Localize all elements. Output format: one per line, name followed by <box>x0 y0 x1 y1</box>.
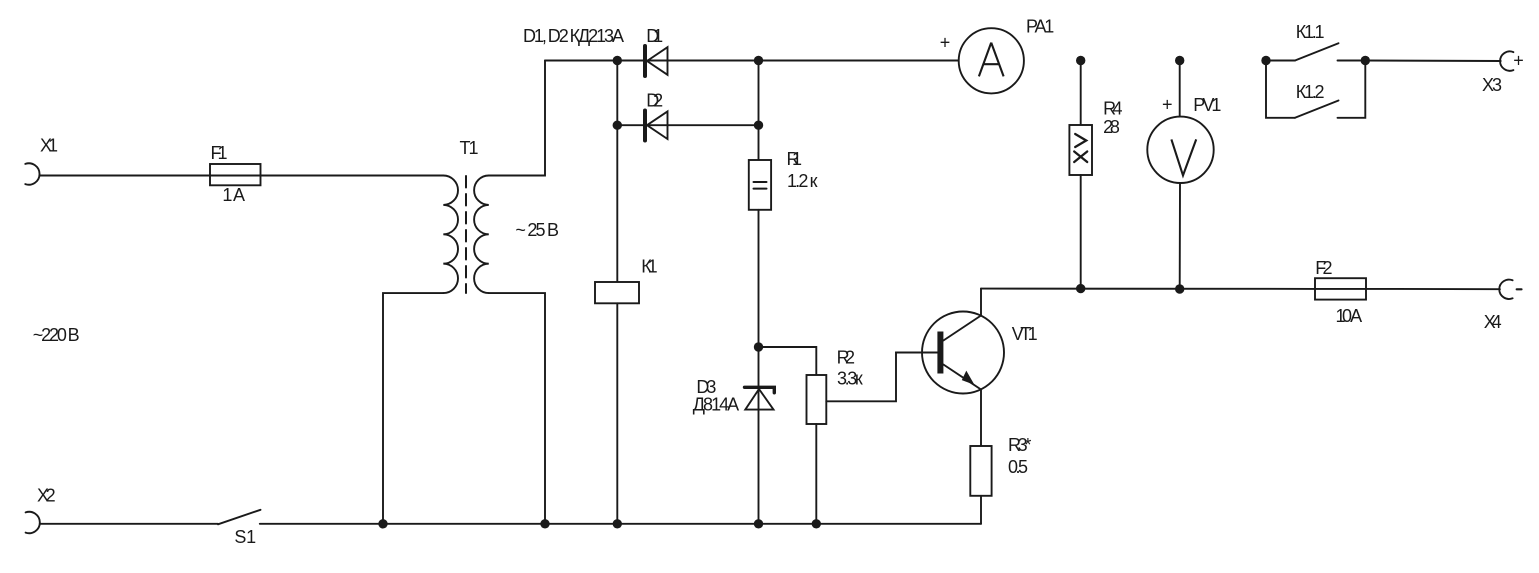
wire VT1 collector to mid rail <box>980 289 982 316</box>
svg-text:+: + <box>1513 51 1524 71</box>
wire R4 to mid rail <box>1080 175 1082 289</box>
wire F1 to T1 primary <box>261 175 444 177</box>
node D2 left <box>613 121 622 130</box>
bottom rail <box>260 523 981 525</box>
resistor R2 <box>807 375 827 424</box>
top rail left segment <box>545 60 959 62</box>
svg-text:Д814А: Д814А <box>693 395 739 415</box>
svg-text:1.2 к: 1.2 к <box>787 171 818 191</box>
svg-text:К1.1: К1.1 <box>1296 22 1325 42</box>
svg-text:X4: X4 <box>1484 312 1502 332</box>
node bottom rail / K1 coil <box>613 519 622 528</box>
mid rail <box>981 288 1315 290</box>
transformer T1 secondary winding <box>474 176 489 294</box>
terminal X4 <box>1499 280 1512 299</box>
svg-text:T1: T1 <box>460 138 479 158</box>
wire R2 to bottom rail <box>815 424 817 524</box>
wire K1 branch vertical <box>616 61 618 283</box>
wire PV1 to mid rail <box>1179 183 1181 289</box>
resistor R3 <box>970 446 991 496</box>
svg-text:28: 28 <box>1103 117 1120 137</box>
wire K1 coil to bottom rail <box>616 303 618 524</box>
wire T1 primary bottom to bottom rail <box>383 293 443 524</box>
resistor R1 <box>749 160 771 210</box>
zener diode D3 <box>745 347 775 524</box>
letter V in PV1 <box>1171 139 1196 175</box>
svg-text:S1: S1 <box>234 527 256 547</box>
wire VT1 emitter to R3 <box>980 390 982 447</box>
svg-text:PA1: PA1 <box>1026 16 1054 36</box>
switch S1 <box>218 510 261 525</box>
node top rail / K1 branch <box>613 56 622 65</box>
wire R3 to bottom rail <box>980 496 982 524</box>
svg-text:VT1: VT1 <box>1012 324 1038 344</box>
wire R2 tap to VT1 base <box>826 353 937 402</box>
relay coil K1 <box>595 282 639 303</box>
node top rail / PV1 <box>1175 56 1184 65</box>
svg-text:~220 В: ~220 В <box>33 325 80 345</box>
fuse F1 <box>210 164 261 185</box>
svg-text:~ 25 В: ~ 25 В <box>515 220 559 240</box>
svg-text:R4: R4 <box>1103 99 1122 119</box>
wire D2 row <box>617 124 758 126</box>
svg-text:R3*: R3* <box>1008 435 1031 455</box>
node R1 bottom / D3 / R2 <box>754 342 763 351</box>
svg-text:X3: X3 <box>1482 75 1502 95</box>
wire F2 to X4 <box>1366 288 1500 290</box>
svg-text:+: + <box>1162 94 1173 114</box>
node mid rail / R4 <box>1076 284 1085 293</box>
svg-text:10 А: 10 А <box>1336 306 1363 326</box>
wire R1 to node <box>758 210 760 347</box>
node top rail / K1 contacts right <box>1361 56 1370 65</box>
wire PV1 branch top <box>1179 61 1181 118</box>
terminal X1 <box>25 163 39 184</box>
svg-text:0.5: 0.5 <box>1008 457 1028 477</box>
node top rail / R4 <box>1076 56 1085 65</box>
transformer T1 core <box>465 176 467 293</box>
diode D2 <box>645 111 668 141</box>
wire T1 secondary top to top rail <box>489 61 545 176</box>
terminal X2 <box>26 512 40 533</box>
svg-text:3.3к: 3.3к <box>837 369 863 389</box>
svg-text:F1: F1 <box>211 143 228 163</box>
svg-text:К1.2: К1.2 <box>1296 82 1325 102</box>
svg-text:R2: R2 <box>837 348 855 368</box>
ammeter PA1 <box>959 28 1024 93</box>
svg-text:F2: F2 <box>1315 258 1332 278</box>
node bottom rail / R2 <box>812 519 821 528</box>
resistor R4 <box>1069 125 1092 175</box>
wire R4 branch vertical <box>1080 61 1082 126</box>
node top rail / K1 contacts left <box>1261 56 1270 65</box>
fuse F2 <box>1315 278 1366 299</box>
svg-text:D1, D2 КД213А: D1, D2 КД213А <box>523 26 624 46</box>
node D2 right <box>754 121 763 130</box>
svg-text:К1: К1 <box>641 256 658 276</box>
svg-text:X1: X1 <box>40 136 58 156</box>
wire K1.1 to X3 <box>1365 60 1500 63</box>
node bottom rail / D3 <box>754 519 763 528</box>
svg-text:D2: D2 <box>646 91 663 111</box>
contact K1.1 <box>1266 43 1365 60</box>
transistor VT1 <box>896 312 1004 394</box>
wire T1 secondary bottom to bottom rail <box>489 293 545 524</box>
transformer T1 primary winding <box>443 176 458 294</box>
minus sign at X4 <box>1517 288 1522 290</box>
diode D1 <box>645 46 668 76</box>
svg-text:R1: R1 <box>787 149 803 169</box>
terminal X3 <box>1500 51 1513 70</box>
svg-text:+: + <box>940 32 951 52</box>
svg-text:PV1: PV1 <box>1193 95 1221 115</box>
node bottom rail / T1 primary <box>378 519 387 528</box>
wire R1 branch vertical top <box>758 61 760 161</box>
node bottom rail / T1 secondary <box>540 519 549 528</box>
node top rail / R1 branch <box>754 56 763 65</box>
contact K1.2 <box>1266 61 1365 118</box>
svg-text:1 А: 1 А <box>222 185 245 205</box>
wire node to R2 <box>759 347 817 375</box>
voltmeter PV1 <box>1147 117 1213 183</box>
wire X1 to F1 <box>40 175 210 177</box>
wire X2 to S1 <box>40 523 218 525</box>
node mid rail / PV1 <box>1175 284 1184 293</box>
svg-text:D1: D1 <box>646 26 663 46</box>
svg-text:X2: X2 <box>37 485 56 505</box>
letter A in PA1 <box>979 43 1004 77</box>
